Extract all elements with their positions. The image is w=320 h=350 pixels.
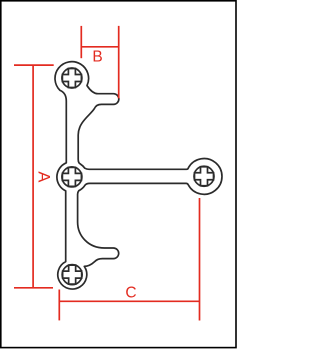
dimension B horizontal dimension line [81,46,118,48]
dimension C left extension tick [58,290,60,321]
dimension C right extension line from right boss [199,198,201,321]
dimension B left extension tick [80,26,82,58]
dimension A top extension tick [14,64,54,66]
dimension A bottom extension tick [14,287,53,289]
dimension B right extension line to tab tip [118,26,120,99]
svg-text:B: B [92,49,102,66]
svg-text:A: A [34,171,52,182]
right screw hole (cross-recess) [194,166,214,186]
dimension A vertical dimension line [32,65,34,288]
svg-text:C: C [125,285,136,302]
border frame [1,1,236,348]
dimension C horizontal dimension line [59,300,199,302]
bracket body outline with three bosses, top tab and bottom hook [55,62,222,289]
top screw hole (cross-recess) [62,68,82,88]
middle screw hole (cross-recess) [62,167,82,187]
bottom screw hole (cross-recess) [62,265,82,285]
